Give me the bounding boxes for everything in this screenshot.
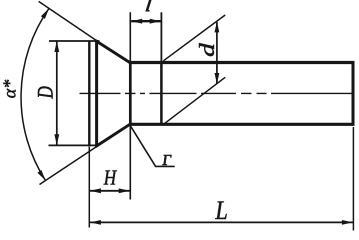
svg-text:d: d <box>196 42 219 57</box>
L right extension <box>352 127 354 231</box>
alpha arc arrowhead bottom <box>37 170 45 181</box>
inner shank line (l right boundary) <box>160 12 162 61</box>
head cone top edge <box>96 41 131 64</box>
svg-text:L: L <box>214 197 227 226</box>
L arrow left <box>90 220 101 225</box>
D arrow down <box>54 134 59 145</box>
alpha dimension arc <box>21 8 49 180</box>
D arrow up <box>54 41 59 52</box>
D extension line bottom <box>49 144 97 146</box>
shank top edge <box>129 61 354 64</box>
L arrow right <box>342 220 353 225</box>
l arrow left <box>131 19 142 24</box>
head face line 2 (inner face line) <box>95 40 98 147</box>
svg-text:D: D <box>35 86 58 99</box>
center line (axis) <box>80 92 355 94</box>
d oblique extension upper <box>163 15 225 61</box>
svg-text:l: l <box>145 0 153 15</box>
H arrow left <box>90 188 101 193</box>
H arrow right <box>119 188 130 193</box>
D dimension line <box>56 42 58 146</box>
d arrow up <box>215 21 220 32</box>
l arrow right <box>150 19 161 24</box>
D extension line top <box>49 40 100 42</box>
shank bottom edge <box>129 123 354 126</box>
cone-shank junction line (also l/H extension) <box>129 12 131 199</box>
svg-text:H: H <box>103 167 117 190</box>
H/L left extension (head face extended) <box>88 147 90 228</box>
l dimension line <box>131 20 161 22</box>
head face line 1 (left, head flat face) <box>88 41 90 147</box>
head cone bottom edge <box>96 124 131 147</box>
shank right end <box>352 61 355 126</box>
L dimension line <box>90 221 353 223</box>
r leader line <box>131 126 175 166</box>
H dimension line <box>90 190 130 192</box>
alpha construction line upper <box>39 1 98 41</box>
alpha construction line lower <box>40 146 98 184</box>
alpha arc arrowhead top <box>41 8 49 19</box>
svg-text:α*: α* <box>0 80 20 98</box>
d arrow down <box>215 73 220 84</box>
d dimension line <box>216 22 218 84</box>
d oblique extension lower <box>165 77 225 123</box>
